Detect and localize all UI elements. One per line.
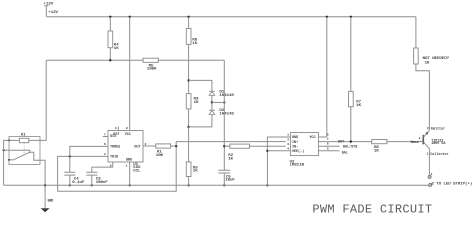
svg-text:100nF: 100nF <box>96 181 109 185</box>
resistor R8 <box>372 140 387 154</box>
svg-text:VEE(-): VEE(-) <box>292 149 304 154</box>
node diode branch <box>187 79 189 81</box>
svg-text:1N4148: 1N4148 <box>219 94 234 98</box>
pin 1 GND wire <box>267 134 290 186</box>
node OUT junction <box>350 140 352 142</box>
pin 7 OUT wire <box>318 138 371 145</box>
svg-text:IN+: IN+ <box>292 141 298 145</box>
svg-text:LM311N: LM311N <box>290 164 305 168</box>
svg-text:GND: GND <box>292 136 298 140</box>
wire R9 column <box>188 127 190 162</box>
resistor R4 <box>108 31 119 51</box>
wire relay contact to ground <box>40 160 45 185</box>
node VEE junction <box>266 150 268 152</box>
svg-text:OUT: OUT <box>134 146 140 150</box>
svg-text:100K: 100K <box>147 68 157 72</box>
pin 4 VEE wire <box>267 148 290 151</box>
wire right column x224 <box>223 60 225 170</box>
svg-text:1K: 1K <box>192 42 197 46</box>
wire R4 top <box>109 17 111 31</box>
resistor R1 10K <box>156 144 171 158</box>
wire relay coil left to ground rail <box>4 140 9 185</box>
resistor R2 <box>228 144 249 162</box>
svg-text:THRES: THRES <box>110 146 120 150</box>
diode D2 <box>209 109 234 117</box>
svg-text:GND: GND <box>126 159 132 163</box>
wire THRES link <box>70 146 108 156</box>
resistor R3 <box>186 94 199 109</box>
svg-text:+12V: +12V <box>48 11 58 15</box>
pin 8 VCC wire from top rail <box>126 17 130 131</box>
svg-text:1K: 1K <box>374 150 379 154</box>
wire R4 bottom <box>109 48 111 61</box>
svg-text:2 TO LED STRIP(+): 2 TO LED STRIP(+) <box>432 181 473 186</box>
svg-text:DIS: DIS <box>110 135 116 139</box>
wire R2 to IN- <box>249 145 285 147</box>
node top rail junctions <box>109 16 352 18</box>
wire diode branch top <box>189 80 212 91</box>
pin 1 collector label <box>427 152 449 157</box>
svg-text:0.1uF: 0.1uF <box>72 181 85 185</box>
svg-text:VCC: VCC <box>310 136 316 140</box>
wire mid rail y60 <box>46 59 224 61</box>
pin 4 RST stub <box>115 127 118 131</box>
node R3 bottom junction <box>187 126 189 128</box>
svg-text:1K: 1K <box>114 47 119 51</box>
svg-text:Collector: Collector <box>430 152 448 157</box>
node R2 tap <box>223 145 225 147</box>
svg-text:OUT: OUT <box>338 141 344 145</box>
op-amp U2 LM311 <box>290 133 319 168</box>
svg-text:1N4148: 1N4148 <box>219 112 234 116</box>
wire relay NC contact to ground net <box>3 149 10 151</box>
wire R6 bottom through y60 <box>188 44 190 93</box>
node ground rail junctions <box>44 184 269 186</box>
node mid rail junctions <box>109 59 111 61</box>
svg-text:1K: 1K <box>425 61 430 65</box>
wire top +12V rail <box>46 16 416 18</box>
pin 8 VCC wire from top rail <box>318 17 329 137</box>
svg-text:1K: 1K <box>356 104 361 108</box>
wire C2 bottom <box>91 175 93 185</box>
wire pullup column <box>350 17 352 92</box>
svg-text:IN-: IN- <box>292 145 298 149</box>
svg-text:1K: 1K <box>193 170 198 174</box>
capacitor C5 <box>219 170 236 183</box>
power flag +12V <box>44 3 54 17</box>
connector J2 pin 1 <box>428 173 433 178</box>
svg-text:VCC: VCC <box>125 133 131 137</box>
wire CV to C2 <box>92 162 113 172</box>
svg-text:100V 5A: 100V 5A <box>431 142 446 146</box>
wire ramp rail B <box>58 146 177 191</box>
svg-text:Emitter: Emitter <box>431 127 445 132</box>
resistor R9 <box>186 162 198 177</box>
pin 7 DIS stub <box>103 133 108 136</box>
svg-text:GND: GND <box>48 199 54 203</box>
svg-text:1K: 1K <box>228 158 233 162</box>
node trig junction <box>69 155 71 157</box>
diode D1 <box>209 91 234 99</box>
transistor Q1 TIP122 <box>411 130 447 148</box>
wire R7 bottom <box>350 107 352 142</box>
wire R3 bottom <box>188 109 190 127</box>
wire D2 bottom link <box>189 115 212 127</box>
wire to IN+ <box>176 142 286 146</box>
capacitor C3 <box>86 172 108 185</box>
wire ground stem <box>44 185 46 208</box>
wire node to D2 <box>211 103 213 111</box>
ground <box>41 199 54 213</box>
wire TRIG rail <box>58 155 108 157</box>
wire R1 to node <box>171 145 177 147</box>
pin 3 OUT stub <box>143 143 156 146</box>
node diode mid junctions <box>211 101 226 103</box>
svg-text:Base: Base <box>411 141 419 145</box>
resistor R5 100K <box>143 58 158 71</box>
wire C1 top <box>69 156 71 172</box>
svg-text:BAL/STB: BAL/STB <box>343 144 357 149</box>
svg-text:TRIG: TRIG <box>110 156 118 160</box>
resistor R6 <box>186 29 198 47</box>
pin 3 emitter label <box>427 127 445 132</box>
svg-text:BAL: BAL <box>342 151 348 155</box>
wire collector down <box>428 149 430 176</box>
svg-text:DIL: DIL <box>133 169 141 173</box>
wire diode cross link <box>212 102 224 104</box>
connector J2 pin 2 <box>429 181 473 186</box>
wire C1 bottom <box>69 175 71 185</box>
wire left drop to relay coil <box>40 60 46 140</box>
pin 6 BAL/STB stub <box>318 143 357 150</box>
resistor NOT NEEDED 1K <box>414 48 450 65</box>
svg-text:1K: 1K <box>194 101 199 105</box>
capacitor C4 <box>64 172 85 185</box>
svg-text:PWM FADE CIRCUIT: PWM FADE CIRCUIT <box>312 202 432 216</box>
wire R9 bottom <box>188 177 190 186</box>
svg-text:10uF: 10uF <box>225 179 235 183</box>
pin 1 GND wire <box>126 162 130 185</box>
wire C5 bottom <box>223 173 225 185</box>
wire D1 to node <box>211 96 213 103</box>
node ramp junction <box>175 145 177 147</box>
relay K1 <box>8 133 40 164</box>
op-amp U1 555 timer <box>108 131 143 174</box>
wire R8 to base <box>387 141 423 143</box>
wire R6 column top <box>188 17 190 29</box>
svg-text:10K: 10K <box>156 154 164 158</box>
resistor R7 <box>349 91 362 108</box>
pin 5 BAL stub <box>318 147 347 155</box>
wire top rail right corner to resistor <box>415 17 417 48</box>
wire R2 left link <box>224 145 230 147</box>
wire ground rail A <box>4 184 429 186</box>
wire emitter up column <box>416 64 430 130</box>
